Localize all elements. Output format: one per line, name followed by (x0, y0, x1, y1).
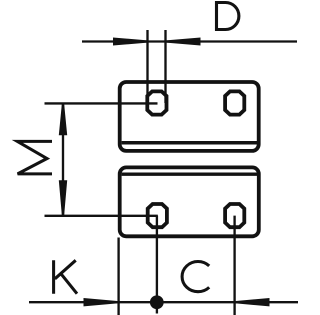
top plate bent-edge line (122, 141, 257, 145)
label C (182, 261, 209, 291)
dimension D leader line (82, 40, 297, 42)
dimension M line (62, 104, 64, 216)
extension line C right (through right hole) (233, 216, 235, 315)
label D (215, 1, 239, 31)
hole top-right (225, 91, 244, 114)
arrowhead M bottom (pointing down) (59, 180, 67, 216)
arrowhead D right (pointing left) (166, 38, 201, 46)
arrowhead C (pointing left) (235, 298, 270, 306)
label K (54, 260, 77, 293)
arrowhead M top (pointing up) (59, 104, 67, 136)
bottom dimension line (29, 301, 298, 303)
extension line D right (164, 30, 166, 103)
datum dot (150, 295, 164, 309)
top plate outline (120, 82, 259, 151)
hole bottom-right (225, 204, 244, 227)
bottom plate outline (120, 167, 259, 236)
hole bottom-left (148, 204, 167, 227)
arrowhead K (pointing right) (84, 298, 119, 306)
hole top-left (147, 91, 166, 114)
extension line M top (45, 102, 158, 104)
extension line M bottom (45, 215, 158, 217)
arrowhead D left (pointing right) (113, 38, 148, 46)
extension line K (plate left edge extended) (117, 238, 119, 315)
center line through left holes down to datum dot (156, 216, 158, 314)
bottom plate bent-edge line (122, 172, 257, 175)
extension line D left (146, 30, 148, 103)
label M (rotated) (17, 141, 52, 174)
